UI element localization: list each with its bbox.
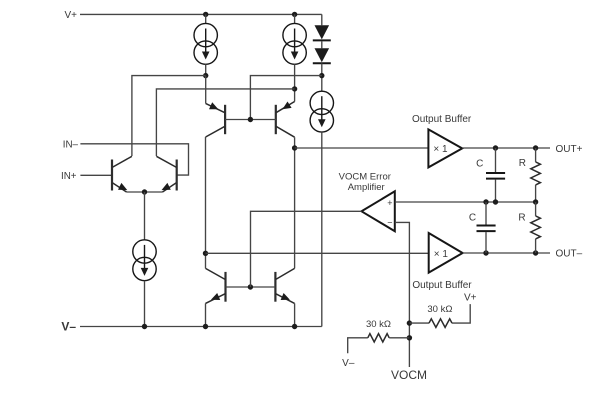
svg-text:IN+: IN+ [61,171,77,182]
op-amp U2 output buffer x1 bottom [429,233,463,273]
svg-text:30 kΩ: 30 kΩ [427,304,452,315]
junction dot tail node [142,189,147,194]
svg-text:V–: V– [342,358,355,369]
junction dot VOCM line / 30k upper [407,320,412,325]
svg-text:−: − [387,218,392,228]
op-amp U1 output buffer x1 top [428,129,462,167]
junction dot OUT- / C2 [483,250,488,255]
op-amp U3 VOCM error amplifier [362,191,395,231]
wire emitter join of input pair [127,191,163,193]
junction dot OUT- / R2 [533,250,538,255]
junction dot midpoint / C2 [483,199,488,204]
capacitor C top [476,148,505,202]
resistor R top [519,148,541,202]
svg-text:VOCM: VOCM [391,368,427,382]
junction dot V- rail / Q5 emitter [203,324,208,329]
junction dot I1 bottom node [203,73,208,78]
current source I1 [194,23,217,64]
svg-text:Output Buffer: Output Buffer [412,280,472,291]
svg-text:C: C [476,159,483,170]
wire I4 bottom to V- rail [144,281,146,327]
current source I3 [310,91,333,132]
diode D2 [313,41,331,63]
wire I2 top stub [294,14,296,23]
wire U3 output to lower mirror bases [251,211,362,287]
transistor Q5 lower NPN left [206,268,226,303]
transistor Q3 cascode PNP left [206,102,226,137]
wire I2 bottom to cascode emitter [294,64,296,101]
wire U3 plus input to RC midpoint [395,201,536,203]
transistor Q4 cascode PNP right [276,102,295,138]
wire IN+ to Q1 base [80,174,112,176]
svg-text:V–: V– [61,320,76,334]
current source I2 [283,23,306,64]
wire Q5 emitter to V- rail [205,303,207,326]
junction dot I2 line / Q2 collector [292,86,297,91]
resistor 30k to V+ [409,293,476,328]
wire Q6 emitter to V- rail [294,303,296,326]
wire lower mirror base rail [226,286,276,288]
wire cascode base rail [225,119,276,121]
svg-text:× 1: × 1 [434,249,449,260]
wire left output node vertical [205,137,207,268]
svg-text:Amplifier: Amplifier [348,182,385,193]
wire U2 output to OUT- [463,252,550,254]
svg-text:+: + [387,198,392,208]
svg-text:R: R [518,213,525,224]
svg-text:R: R [519,158,526,169]
svg-text:C: C [469,213,476,224]
svg-text:IN–: IN– [63,140,79,151]
junction dot diode bottom node [319,73,324,78]
wire right node to buffer U1 input [295,147,429,149]
wire tail node to I4 [144,192,146,240]
transistor Q1 input NPN left [112,156,132,192]
junction dot lower base node [248,284,253,289]
junction dot OUT+ / C [493,145,498,150]
junction dot OUT+ / R [533,145,538,150]
junction dot midpoint / C1 [493,199,498,204]
junction dot V+ rail / current source I2 [292,12,297,17]
wire left node to buffer U2 input [206,252,429,254]
junction dot V- rail / Q6 emitter [292,324,297,329]
wire Q1 collector riser [132,76,206,156]
wire V- rail [80,326,322,328]
svg-text:V+: V+ [464,293,477,304]
wire diode node to cascode base riser [250,76,321,120]
wire I1 node to Q3 emitter [205,76,207,104]
svg-text:30 kΩ: 30 kΩ [366,319,391,330]
svg-text:× 1: × 1 [433,144,448,155]
svg-text:OUT–: OUT– [556,249,583,260]
wire IN- to Q2 base [80,144,188,175]
wire diode bottom to I3 [321,63,323,91]
diode D1 [313,14,331,40]
svg-text:OUT+: OUT+ [556,144,583,155]
wire I1 bottom stub [205,64,207,75]
wire U3 minus input to VOCM line [395,222,410,367]
wire V+ rail [80,13,322,15]
wire I1 top stub [205,14,207,23]
wire U1 output to OUT+ [462,147,550,149]
svg-text:V+: V+ [64,10,77,21]
transistor Q2 input NPN right [156,156,176,192]
junction dot V- rail / I4 [142,324,147,329]
junction dot midpoint / R1 R2 [533,199,538,204]
junction dot V+ rail / current source I1 [203,12,208,17]
svg-text:Output Buffer: Output Buffer [412,114,472,125]
resistor R bottom [518,202,540,253]
junction dot left node / buffer2 tap [203,251,208,256]
junction dot right node / buffer1 tap [292,145,297,150]
wire Q2 collector riser [156,89,294,156]
capacitor C bottom [469,202,496,253]
resistor 30k to V- [342,319,409,369]
junction dot cascode base node [248,117,253,122]
wire right output node vertical [294,137,296,268]
wire I3 bottom to V- rail [321,132,323,326]
junction dot VOCM line / 30k lower [407,335,412,340]
transistor Q6 lower NPN right [275,268,294,303]
current source I4 tail [133,240,156,281]
